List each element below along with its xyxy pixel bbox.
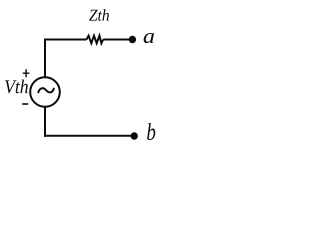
wire: top rail right segment xyxy=(103,39,129,41)
minus polarity mark xyxy=(22,103,28,105)
sine symbol inside source xyxy=(38,88,54,92)
wire: left vertical bottom segment xyxy=(44,107,46,137)
node a terminal dot xyxy=(129,36,136,43)
resistor Zth xyxy=(87,36,104,44)
wire: bottom rail xyxy=(44,135,131,137)
plus polarity mark xyxy=(23,69,30,77)
label Vth xyxy=(5,80,28,94)
node b terminal dot xyxy=(131,132,138,139)
wire: left vertical top segment xyxy=(44,39,46,78)
node a label xyxy=(144,33,154,43)
node b label xyxy=(147,123,155,140)
voltage source Vth (ac source circle) xyxy=(30,77,60,107)
wire: top rail left segment xyxy=(45,39,87,41)
label Zth xyxy=(89,9,109,21)
